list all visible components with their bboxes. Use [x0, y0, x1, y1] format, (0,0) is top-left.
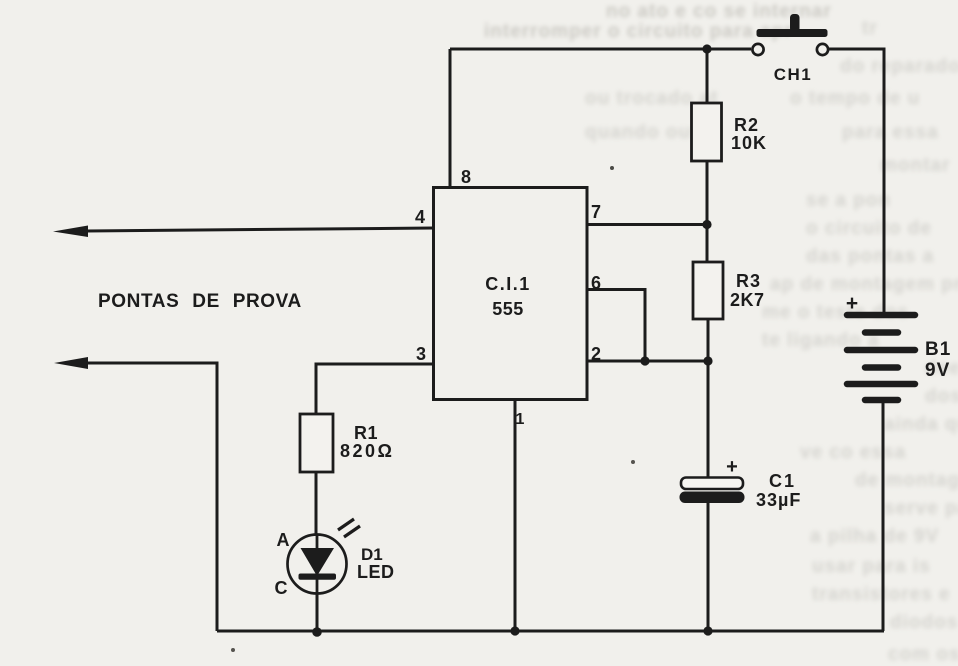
- svg-text:555: 555: [492, 299, 524, 319]
- svg-text:2: 2: [591, 344, 601, 364]
- wire: bottom rail: [217, 630, 884, 633]
- svg-text:R1: R1: [354, 423, 378, 443]
- svg-text:33µF: 33µF: [756, 490, 801, 510]
- node: junction pin2 / R3 column: [703, 356, 712, 365]
- wire: LED cathode to bottom rail: [316, 593, 319, 631]
- node: junction top rail / R2: [702, 44, 711, 53]
- svg-text:C: C: [275, 578, 288, 598]
- svg-text:C1: C1: [769, 471, 796, 491]
- arrow head: probe 1 tip: [53, 226, 88, 238]
- stray scan speck marks: [610, 166, 614, 170]
- svg-text:CH1: CH1: [774, 65, 813, 84]
- node: junction pin1 / bottom rail: [510, 626, 519, 635]
- wire: pin 7 from IC to R2/R3 node: [587, 223, 707, 226]
- wire: from CH1 right terminal to top-right corner and down to battery +: [829, 49, 884, 313]
- wire: pin 8 vertical from top rail down to IC top: [449, 49, 452, 187]
- svg-text:+: +: [726, 456, 738, 478]
- wire: R2 column from top rail through R2 to pin7 node: [706, 49, 709, 103]
- capacitor C1 electrolytic: [680, 478, 745, 504]
- wire: R2 bottom to R3 top through pin7 node: [706, 161, 709, 262]
- node: junction C1 column / bottom rail: [703, 626, 712, 635]
- svg-text:1: 1: [516, 411, 525, 428]
- svg-text:6: 6: [591, 273, 601, 293]
- svg-text:2K7: 2K7: [730, 290, 765, 310]
- battery B1: [847, 315, 915, 400]
- LED D1: [288, 519, 361, 594]
- svg-text:B1: B1: [925, 339, 951, 360]
- svg-text:R3: R3: [736, 271, 761, 291]
- svg-text:PONTAS DE PROVA: PONTAS DE PROVA: [98, 291, 302, 312]
- wire: battery negative down to bottom rail corner: [882, 402, 885, 631]
- background bleed-through scan text (decorative): [0, 0, 958, 1]
- svg-text:10K: 10K: [731, 133, 767, 153]
- node: junction pin6 corner on pin2 line: [640, 356, 649, 365]
- svg-text:R2: R2: [734, 115, 759, 135]
- svg-text:9V: 9V: [925, 360, 950, 381]
- svg-text:LED: LED: [357, 562, 395, 582]
- wire: R1 bottom to LED anode: [315, 472, 318, 535]
- wire: R3 bottom down to C1 top plate: [707, 319, 710, 478]
- node: junction pin7 / R2-R3: [702, 220, 711, 229]
- svg-text:3: 3: [416, 344, 426, 364]
- svg-text:C.I.1: C.I.1: [485, 274, 531, 294]
- op-amp/IC U1: 555 timer box C.I.1: [434, 188, 588, 400]
- svg-text:A: A: [277, 530, 290, 550]
- resistor R1: [300, 414, 333, 472]
- wire: pin 6 from IC right then down to pin2 line: [587, 290, 645, 362]
- wire: C1 bottom plate down to bottom rail: [707, 502, 710, 631]
- switch CH1 pushbutton: [752, 14, 828, 55]
- svg-text:+: +: [846, 292, 858, 315]
- arrow head: probe 2 tip: [54, 357, 88, 369]
- svg-text:820Ω: 820Ω: [340, 441, 394, 461]
- resistor R3: [693, 262, 723, 319]
- node: junction LED / bottom rail: [312, 627, 322, 637]
- wire: pin 3 from IC left then down to R1: [316, 364, 433, 414]
- wire: probe lead 1 (pin 4 output): [86, 228, 433, 231]
- resistor R2: [692, 103, 722, 161]
- svg-text:4: 4: [415, 207, 425, 227]
- wire: top rail from pin8 corner to switch CH1 left terminal: [450, 48, 751, 51]
- wire: probe lead 2 horizontal then down to bottom rail: [84, 363, 217, 631]
- wire: pin 1 from IC bottom to bottom rail: [514, 400, 517, 631]
- svg-text:8: 8: [461, 167, 471, 187]
- svg-text:7: 7: [591, 202, 601, 222]
- wire: pin 2 from IC to R3 column: [587, 360, 708, 363]
